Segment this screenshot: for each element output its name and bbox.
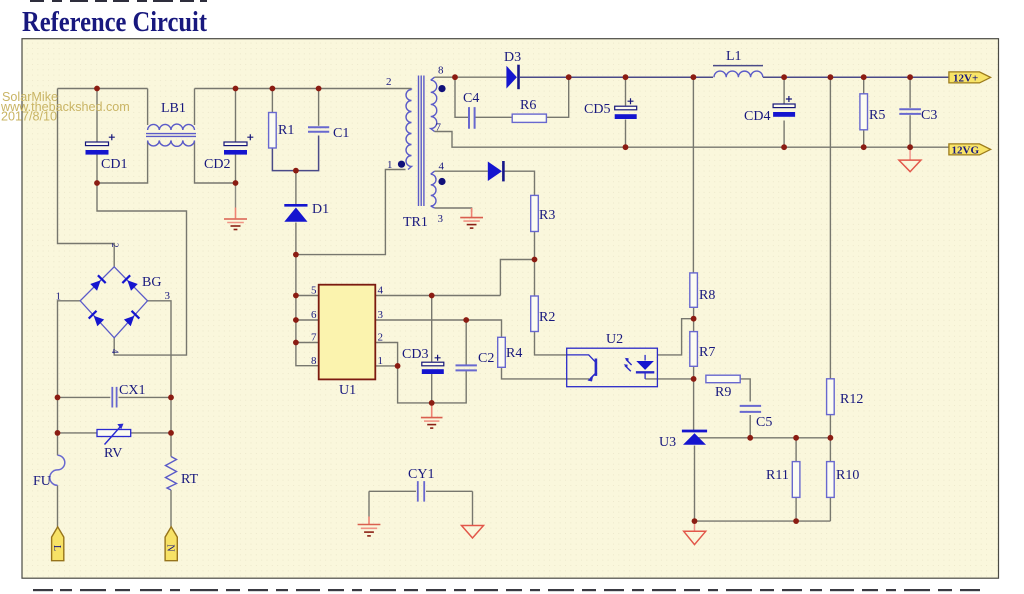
- U2 transistor bar: [595, 359, 598, 376]
- wire TR1 pin7 to 12VG rail: [435, 132, 949, 148]
- wire CY1 right drop: [472, 491, 474, 525]
- resistor R8: [690, 273, 698, 307]
- varistor RV: [97, 424, 131, 445]
- svg-text:7: 7: [311, 332, 317, 344]
- node 12V rail dots: [452, 74, 458, 80]
- diode D2: [488, 161, 504, 181]
- phase dot secondary bottom: [438, 178, 445, 185]
- node R1C1 bottom: [293, 168, 299, 174]
- wire R8 to R7: [693, 307, 695, 331]
- transformer TR1 secondary bottom coil: [431, 171, 436, 208]
- U2 LED cathode bar: [636, 371, 654, 373]
- ground triangle U3 (red): [684, 521, 706, 545]
- svg-text:1: 1: [56, 291, 62, 303]
- svg-text:L: L: [51, 545, 62, 551]
- wire C3 top lead: [909, 77, 911, 108]
- wire LB1 top-right lead: [194, 89, 196, 126]
- U2 LED triangle: [636, 361, 654, 370]
- svg-text:C1: C1: [333, 126, 349, 141]
- U2 light arrows: [625, 359, 632, 371]
- bottom cropped text dashes: [33, 589, 980, 591]
- svg-text:2017/8/10: 2017/8/10: [1, 109, 57, 123]
- svg-text:CD3: CD3: [402, 347, 428, 362]
- wire LB1 bottom-right lead to CD2: [195, 142, 236, 184]
- bridge diode top-right: [122, 275, 137, 290]
- ground earth CY1 left (red): [358, 517, 381, 536]
- wire R10 bottom lead: [829, 497, 831, 521]
- svg-text:N: N: [165, 544, 176, 551]
- wire bridge right pin column: [148, 301, 172, 457]
- svg-text:8: 8: [438, 65, 444, 77]
- top cropped text dashes: [30, 0, 207, 2]
- wire 12V+ output rail: [520, 76, 949, 78]
- thermistor RT zigzag: [166, 457, 177, 491]
- svg-text:U2: U2: [606, 332, 623, 347]
- wire R10 top lead: [829, 438, 831, 462]
- wire CY1 left drop: [368, 491, 370, 516]
- wire U1 pin3 net: [375, 320, 501, 337]
- wire R12 bottom lead: [829, 415, 831, 438]
- capacitor CD1 (electrolytic): [86, 134, 115, 154]
- diode U3 (zener): [682, 431, 707, 445]
- wire C1 top lead: [318, 89, 320, 126]
- terminal L: [51, 527, 64, 561]
- wire CD3 bottom lead: [431, 373, 433, 403]
- wire R3 bottom lead: [534, 232, 536, 260]
- wire D2 to R3: [504, 171, 535, 195]
- wire R1 top lead: [271, 89, 273, 113]
- wire U3 top lead: [693, 379, 695, 430]
- svg-text:1: 1: [378, 355, 384, 367]
- wire U1 pin6 stub: [296, 319, 319, 321]
- svg-text:FU: FU: [33, 474, 51, 489]
- capacitor CD2 (electrolytic): [224, 134, 253, 154]
- resistor R2: [531, 296, 539, 332]
- svg-text:L1: L1: [726, 49, 742, 64]
- resistor R6: [512, 114, 546, 122]
- wire TR1 pin8 out: [435, 76, 456, 78]
- node top rail y88 dots: [94, 86, 100, 92]
- node R7 bottom: [691, 376, 697, 382]
- node C2 top: [463, 317, 469, 323]
- capacitor CD5 (electrolytic): [615, 98, 637, 119]
- node R8 R7: [691, 316, 697, 322]
- ground triangle CY1 right (red): [462, 526, 484, 539]
- svg-text:8: 8: [311, 355, 317, 367]
- node U3 rail: [747, 435, 753, 441]
- svg-text:6: 6: [311, 309, 317, 321]
- wire C2 top lead: [465, 320, 467, 365]
- svg-text:D1: D1: [312, 202, 329, 217]
- resistor R1: [269, 113, 277, 149]
- wire R3 node to U1 pin4 elbow: [500, 260, 534, 296]
- svg-text:R1: R1: [278, 123, 294, 138]
- node U1 pin1 pin2: [395, 363, 401, 369]
- node CD1 CD2 bottoms: [94, 180, 100, 186]
- svg-text:C3: C3: [921, 108, 937, 123]
- node D1 bottom: [293, 252, 299, 258]
- wire U2 anode elbow: [657, 319, 693, 355]
- svg-text:BG: BG: [142, 275, 161, 290]
- wire R5 bottom lead: [863, 130, 865, 147]
- svg-text:3: 3: [378, 309, 384, 321]
- resistor R7: [690, 332, 698, 367]
- ground triangle C3 (red): [899, 147, 921, 172]
- node U1 left pins: [293, 293, 299, 299]
- wire C5 bottom lead: [749, 415, 751, 438]
- wire U1 pin4 net: [375, 295, 500, 297]
- svg-text:3: 3: [165, 290, 171, 302]
- capacitor C5: [740, 406, 761, 412]
- choke LB1 core lines: [146, 134, 196, 137]
- node bottom gnd rail: [692, 518, 698, 524]
- svg-text:3: 3: [438, 213, 444, 225]
- wire U1 left pin column: [296, 255, 319, 366]
- wire CX1 plate stubs: [58, 396, 172, 398]
- svg-text:1: 1: [387, 159, 393, 171]
- svg-text:12VG: 12VG: [952, 144, 980, 156]
- wire D3 anode lead: [455, 76, 506, 78]
- node 12VG rail dots: [623, 144, 629, 150]
- phase dot primary: [398, 161, 405, 168]
- wire R2 top lead: [534, 260, 536, 297]
- wire U1 pin1 down to gnd rail: [398, 366, 467, 403]
- wire FU bottom to L terminal: [57, 485, 59, 527]
- resistor R3: [531, 195, 539, 231]
- svg-text:R11: R11: [766, 468, 789, 483]
- svg-text:CD4: CD4: [744, 109, 770, 124]
- optocoupler U2: [567, 348, 658, 387]
- wire RT bottom to N terminal: [170, 490, 172, 527]
- wire CD3 top lead: [431, 296, 433, 362]
- U2 emitter arrowhead: [588, 375, 594, 382]
- wire top rail left segment: [58, 88, 148, 90]
- wire R1 C1 bottom tie: [272, 136, 318, 171]
- capacitor CD4 (electrolytic): [773, 96, 795, 117]
- phase dot secondary top: [438, 85, 445, 92]
- wire U1 pin2 pin1 tie: [375, 343, 397, 366]
- capacitor CY1: [418, 481, 424, 502]
- svg-text:D3: D3: [504, 50, 521, 65]
- svg-text:LB1: LB1: [161, 101, 186, 116]
- svg-text:RT: RT: [181, 472, 198, 487]
- capacitor CX1: [112, 387, 116, 408]
- svg-text:CD5: CD5: [584, 102, 610, 117]
- svg-text:5: 5: [311, 285, 317, 297]
- U2 transistor emitter lead: [590, 373, 596, 379]
- svg-text:TR1: TR1: [403, 215, 428, 230]
- wire left AC column top: [58, 89, 115, 267]
- wire R5 top lead: [863, 77, 865, 94]
- svg-text:R8: R8: [699, 288, 715, 303]
- wire CD4 bottom lead: [783, 121, 785, 148]
- svg-text:2: 2: [110, 243, 120, 248]
- svg-text:U3: U3: [659, 435, 676, 450]
- flag 12VG: [949, 144, 991, 156]
- svg-text:12V+: 12V+: [953, 72, 978, 84]
- wire TR1 pin4 to D2: [435, 170, 488, 172]
- wire RV stubs: [58, 432, 172, 434]
- wire U1 pin5 stub: [296, 295, 319, 297]
- wire L1 overline: [713, 65, 763, 67]
- wire C4 R6 snubber branch: [455, 77, 569, 117]
- node CX1 RV: [55, 395, 61, 401]
- svg-text:C4: C4: [463, 91, 479, 106]
- node CD3 top / bottom: [429, 293, 435, 299]
- bridge diode bottom-right: [124, 311, 139, 326]
- transformer TR1 primary coil: [406, 76, 437, 209]
- wire U3 node rail: [695, 437, 831, 439]
- inductor L1: [714, 71, 763, 77]
- svg-text:R12: R12: [840, 392, 863, 407]
- capacitor C1: [308, 127, 329, 132]
- svg-text:R5: R5: [869, 108, 885, 123]
- bridge diode top-left: [90, 275, 105, 290]
- wire R12 column from top rail: [829, 77, 831, 379]
- capacitor C4: [469, 107, 475, 129]
- wire bridge left pin column: [58, 301, 81, 456]
- resistor R4: [498, 337, 506, 367]
- pin number labels: [56, 65, 445, 368]
- wire D1 top lead: [295, 171, 297, 205]
- wire TR1 pin1 to D1 node: [296, 170, 406, 255]
- ground earth CD2 (red): [224, 183, 247, 230]
- ground earth CD3 (red): [421, 403, 443, 428]
- diode D1: [284, 205, 307, 221]
- wire R4 bottom to U2 emitter: [502, 367, 567, 379]
- ground earth TR1 pin3 (red): [460, 208, 483, 228]
- wire CD2 top lead: [235, 89, 237, 142]
- wire R9 right elbow to C5: [740, 379, 750, 402]
- U2 LED anode lead: [644, 355, 646, 361]
- wire U2 cathode stub to junction: [645, 378, 694, 380]
- capacitor CD3 (electrolytic): [422, 355, 444, 374]
- wire CD4 top lead: [783, 77, 785, 103]
- choke LB1 bottom coil: [148, 140, 195, 146]
- wire CD1 bottom lead: [96, 155, 98, 184]
- svg-text:2: 2: [378, 332, 384, 344]
- wire CY1 horizontal: [369, 490, 473, 492]
- U2 transistor collector lead: [567, 355, 596, 362]
- wire CD1 top lead: [96, 89, 98, 142]
- transformer TR1 core: [419, 76, 424, 207]
- diode D3: [506, 65, 518, 90]
- capacitor C2: [456, 365, 477, 370]
- node R3 bottom: [532, 257, 538, 263]
- resistor R5: [860, 94, 868, 130]
- svg-text:R2: R2: [539, 310, 555, 325]
- wire R11 top lead: [795, 438, 797, 462]
- svg-text:R9: R9: [715, 385, 731, 400]
- choke LB1 top coil: [146, 124, 196, 146]
- wire minus rail CD1 to bridge bottom: [97, 183, 187, 355]
- wire CD1 to LB1 bottom-left: [97, 142, 148, 184]
- bridge BG outline: [80, 267, 147, 338]
- wire R8 column from top rail: [692, 77, 694, 273]
- bridge diode bottom-left: [89, 311, 104, 326]
- wire bottom ground rail: [695, 520, 831, 522]
- wire R11 bottom lead: [795, 497, 797, 521]
- wire CD5 top lead: [625, 77, 627, 105]
- wire CD2 bottom lead: [235, 155, 237, 184]
- svg-text:U1: U1: [339, 383, 356, 398]
- wire U2 emitter stub inside: [567, 378, 589, 380]
- terminal N: [165, 527, 178, 561]
- wire U1 pin7 stub: [296, 342, 319, 344]
- svg-text:R10: R10: [836, 468, 859, 483]
- wire CD5 bottom lead: [625, 120, 627, 148]
- svg-text:4: 4: [110, 349, 120, 354]
- svg-text:R3: R3: [539, 208, 555, 223]
- fuse FU: [50, 455, 65, 485]
- resistor R9: [706, 375, 740, 383]
- svg-text:4: 4: [439, 161, 445, 173]
- wire R7 bottom lead: [693, 366, 695, 379]
- wire LB1 top-left lead: [147, 89, 149, 126]
- svg-text:Reference Circuit: Reference Circuit: [22, 7, 208, 38]
- wire R2 bottom to U2 collector: [535, 332, 567, 355]
- resistor R10: [827, 462, 835, 498]
- svg-text:R4: R4: [506, 346, 522, 361]
- IC U1: [319, 285, 376, 380]
- svg-text:C2: C2: [478, 351, 494, 366]
- watermark: [0, 90, 130, 123]
- transformer TR1 secondary top coil: [431, 77, 437, 131]
- resistor R12: [827, 379, 835, 415]
- svg-text:CD2: CD2: [204, 157, 230, 172]
- wire TR1 pin3 to ground: [435, 208, 472, 212]
- svg-text:CX1: CX1: [119, 383, 145, 398]
- wire D1 bottom lead: [295, 223, 297, 255]
- resistor R11: [792, 462, 800, 498]
- svg-text:7: 7: [436, 122, 442, 134]
- svg-text:RV: RV: [104, 446, 122, 461]
- wire C3 bottom lead: [909, 115, 911, 147]
- svg-text:R7: R7: [699, 345, 715, 360]
- svg-text:CD1: CD1: [101, 157, 127, 172]
- svg-text:CY1: CY1: [408, 467, 434, 482]
- svg-text:C5: C5: [756, 415, 772, 430]
- svg-text:2: 2: [386, 76, 392, 88]
- capacitor C3: [899, 109, 921, 114]
- wire top rail mid segment LB1 to TR1 primary: [195, 88, 412, 90]
- flag 12V+: [949, 72, 991, 84]
- svg-text:4: 4: [378, 285, 384, 297]
- svg-text:R6: R6: [520, 98, 536, 113]
- wire U3 bottom lead: [694, 446, 696, 522]
